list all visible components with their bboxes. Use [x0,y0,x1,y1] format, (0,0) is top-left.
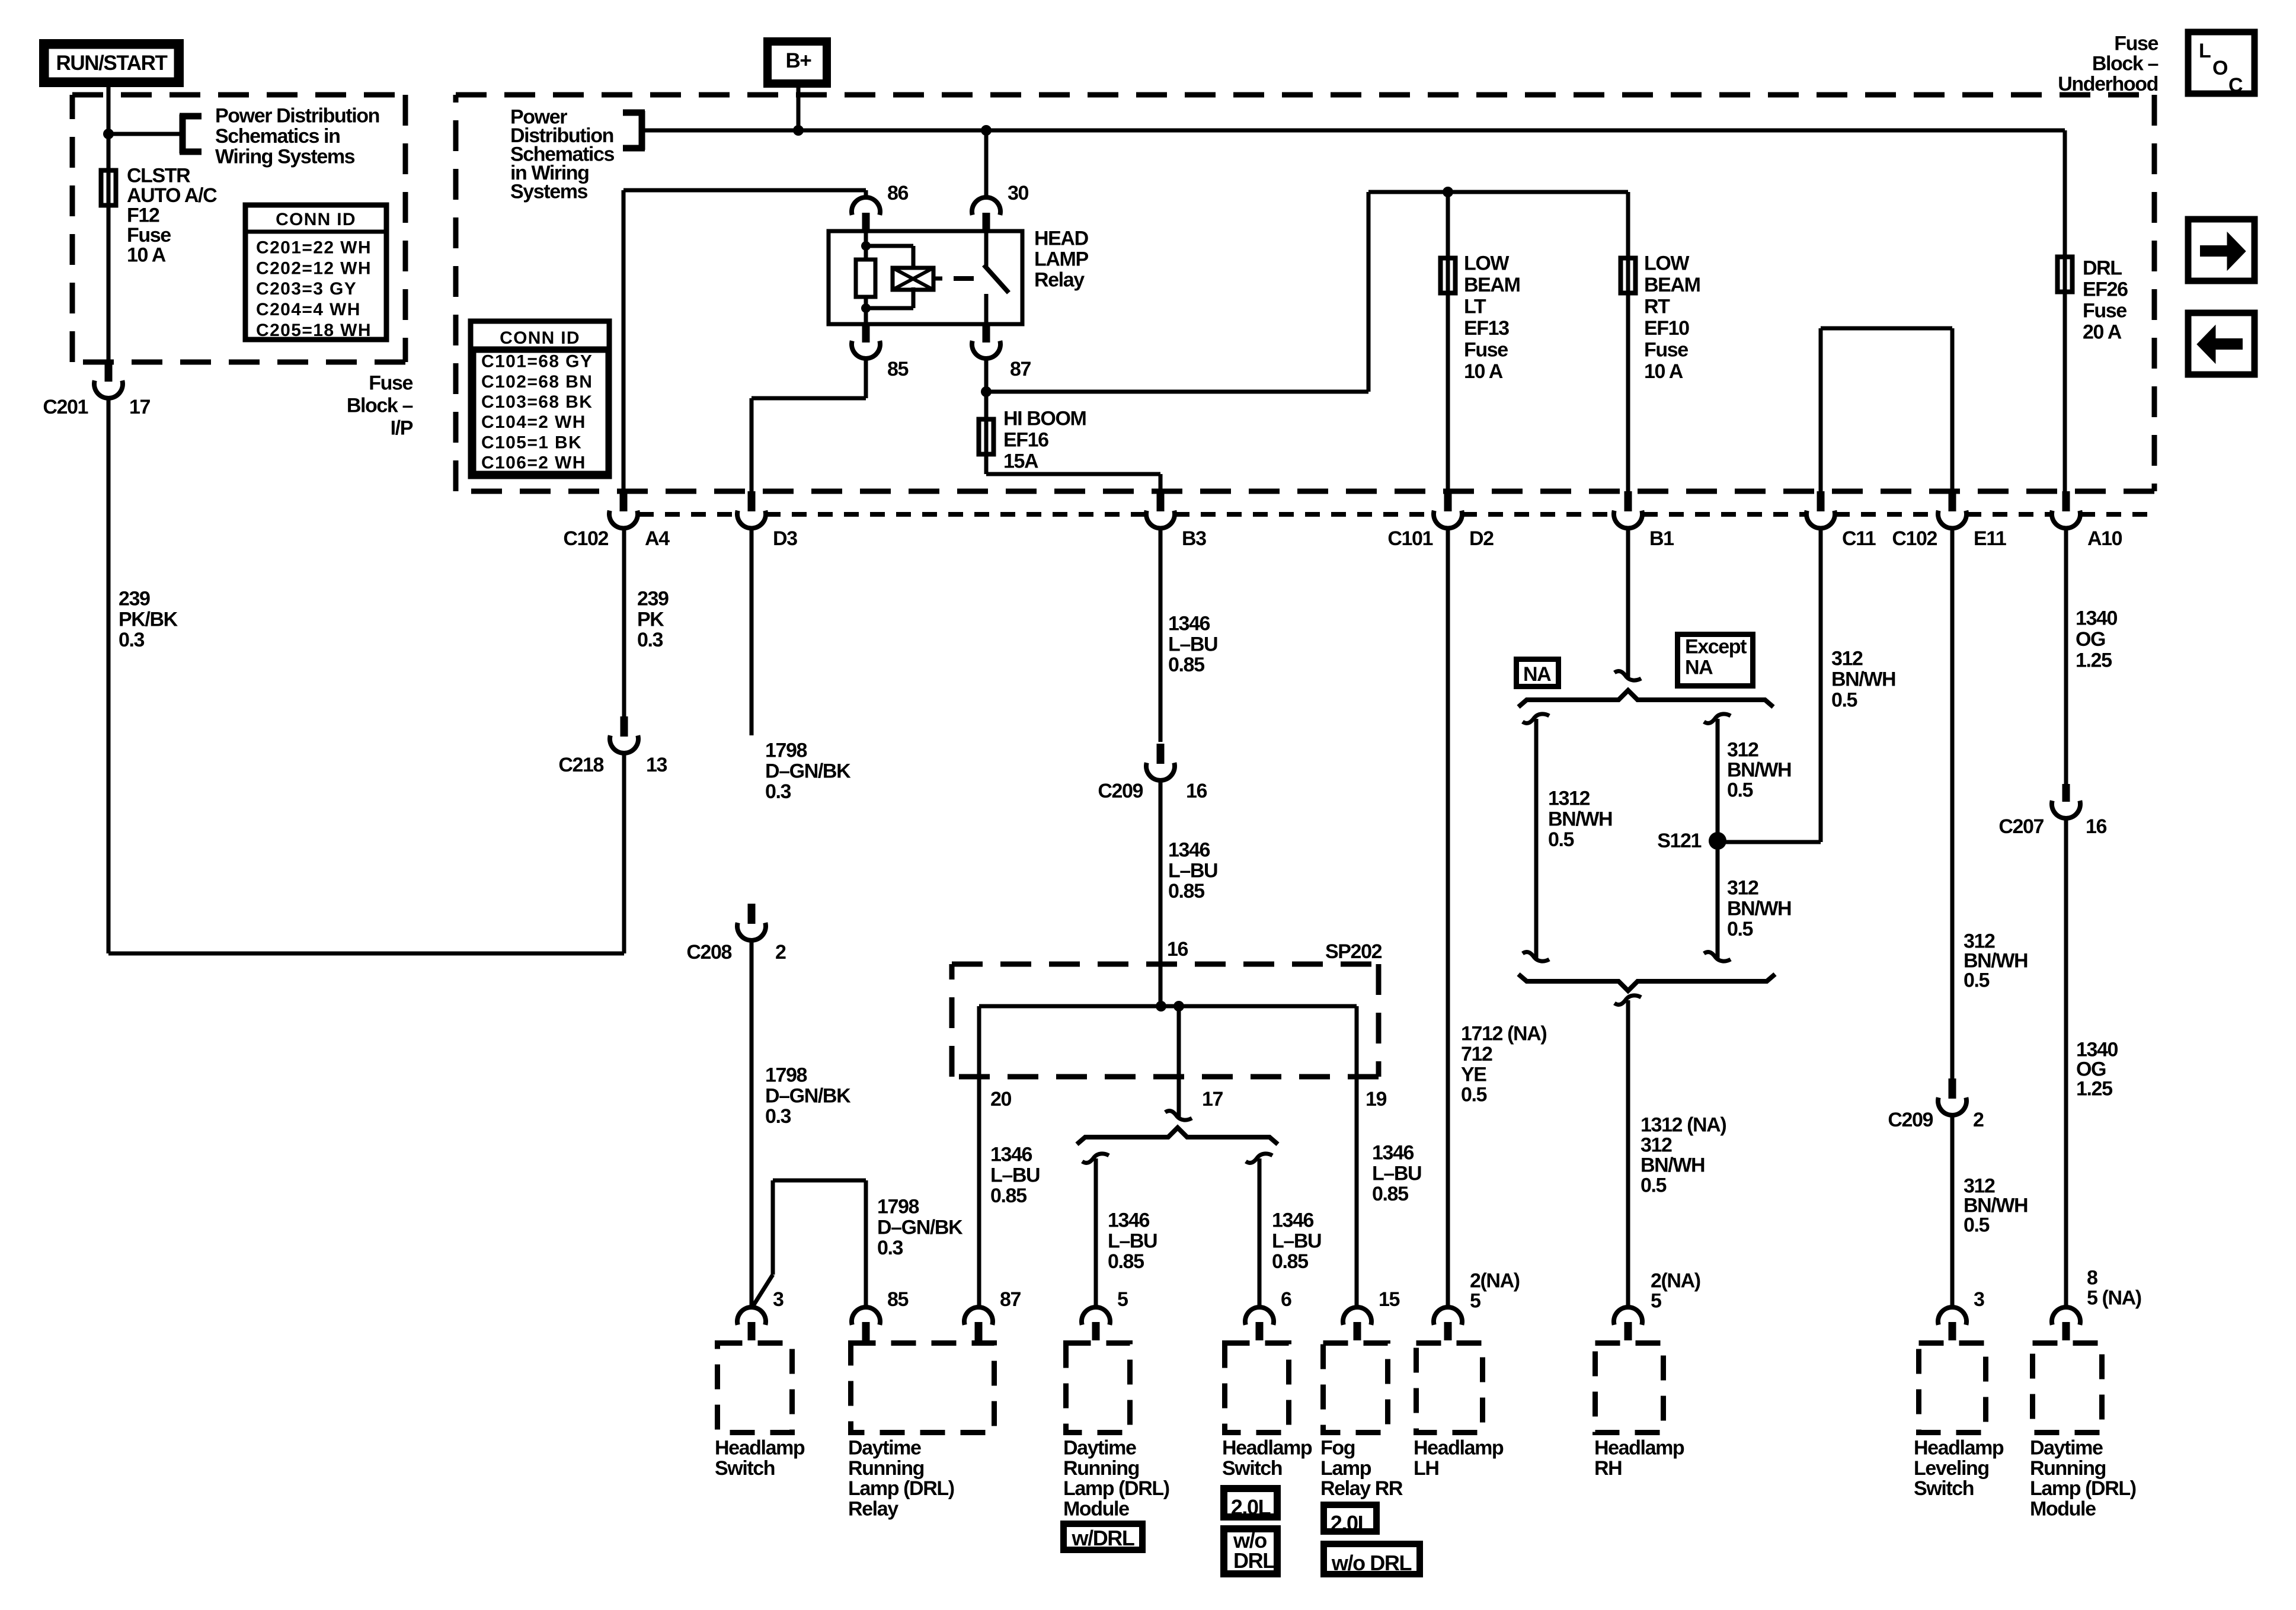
junction dot low beam split [1443,187,1453,197]
svg-text:1.25: 1.25 [2076,1078,2112,1100]
svg-text:BN/WH: BN/WH [1831,668,1895,691]
svg-text:Fog: Fog [1320,1437,1355,1459]
wire A10 to C207 [2064,528,2068,784]
svg-text:Relay: Relay [1034,269,1085,292]
label SP202 [1325,940,1382,963]
label LOW BEAM LT EF13 Fuse 10 A [1464,252,1520,383]
wire RUN/START to C201 [107,87,111,364]
svg-text:0.5: 0.5 [1641,1174,1667,1197]
svg-text:86: 86 [887,182,909,204]
svg-text:0.85: 0.85 [990,1185,1027,1207]
svg-text:16: 16 [1167,938,1188,961]
svg-text:B3: B3 [1182,527,1206,550]
splice S121 [1657,830,1726,852]
svg-text:1312: 1312 [1548,788,1590,810]
svg-text:EF13: EF13 [1464,317,1509,340]
wire C207 to DRL module [2064,818,2068,1307]
svg-text:C207: C207 [1998,815,2044,838]
svg-text:Running: Running [1063,1457,1139,1480]
relay resistor [856,260,875,297]
svg-text:1798: 1798 [765,1064,807,1087]
svg-text:13: 13 [646,754,667,776]
option tag w/DRL [1064,1524,1143,1551]
svg-text:6: 6 [1281,1288,1291,1311]
svg-text:1346: 1346 [1372,1142,1414,1164]
svg-text:0.3: 0.3 [765,1105,791,1128]
dotted connector row line [639,512,2154,517]
wire merge to headlamp RH [1614,996,1641,1307]
component box Headlamp LH [1414,1343,1504,1480]
svg-text:Fuse: Fuse [2083,300,2126,322]
connector headlamp switch pin 3 [737,1288,784,1340]
connector pin D3 [737,491,797,550]
fuse LOW BEAM RT EF10 [1621,258,1636,293]
LOC reference box [2188,32,2255,97]
connector C102 pin A4 [563,491,670,550]
svg-text:C101=68 GY: C101=68 GY [481,352,593,372]
wire C209 to SP202 [1159,779,1163,1006]
svg-text:17: 17 [129,396,151,418]
junction dot SP202 in [1156,1001,1166,1012]
label 8 / 5 (NA) (DRL module pin) [2087,1267,2141,1310]
relay coil (X box) [893,268,942,290]
svg-text:1798: 1798 [765,740,807,762]
svg-text:0.5: 0.5 [1727,918,1753,940]
connector C209 pin 16 [1098,744,1207,802]
label 19 [1366,1088,1387,1110]
svg-text:Running: Running [2030,1457,2106,1480]
svg-text:15A: 15A [1003,450,1038,473]
svg-text:Fuse: Fuse [1464,339,1508,361]
svg-text:AUTO A/C: AUTO A/C [127,184,217,207]
svg-text:BN/WH: BN/WH [1727,897,1791,920]
svg-text:C201=22 WH: C201=22 WH [256,238,372,258]
label 312 BN/WH 0.5 (C11) [1831,648,1895,712]
wire C11 to S121 [1718,528,1821,842]
svg-text:A10: A10 [2087,527,2122,550]
svg-text:BN/WH: BN/WH [1548,808,1612,830]
svg-text:RH: RH [1594,1457,1622,1480]
wire jumper C11 to E11 [1821,328,1952,491]
svg-text:312: 312 [1727,877,1758,900]
component box Fog Lamp Relay RR [1320,1343,1403,1500]
wire C209 to leveling switch pin 3 [1950,1115,1955,1307]
svg-text:Daytime: Daytime [848,1437,921,1459]
label LOW BEAM RT EF10 Fuse 10 A [1644,252,1700,383]
svg-text:Fuse: Fuse [2114,33,2158,55]
svg-text:0.5: 0.5 [1831,689,1857,712]
connector relay pin 86 [852,182,909,231]
connector fog lamp relay pin 15 [1343,1288,1400,1340]
svg-text:C218: C218 [558,754,603,776]
svg-text:CONN ID: CONN ID [500,328,580,348]
connector headlamp LH pin 5 [1434,1307,1462,1340]
svg-text:Headlamp: Headlamp [1222,1437,1312,1459]
wire B3 to C209 [1159,528,1163,742]
component box Headlamp Switch [715,1343,805,1480]
svg-text:Running: Running [848,1457,924,1480]
label 2(NA) 5 (headlamp LH pin) [1470,1270,1520,1313]
option wire Except NA (312) [1704,714,1731,961]
svg-text:1346: 1346 [1272,1209,1314,1232]
wire to relay pin 86 and down to A4 [623,190,866,491]
svg-text:Switch: Switch [1914,1477,1974,1500]
svg-text:0.3: 0.3 [119,629,145,651]
connector pin B3 [1146,491,1206,550]
power source box B+ [768,41,827,84]
svg-text:312: 312 [1727,739,1758,761]
svg-text:5: 5 [1651,1290,1661,1313]
junction dot pin 30 drop [981,125,992,136]
label 1346 L-BU 0.85 (above C209) [1168,613,1217,677]
svg-text:0.85: 0.85 [1108,1250,1144,1273]
connector C208 pin 2 [686,904,786,964]
svg-text:C203=3 GY: C203=3 GY [256,279,357,299]
option tag 2.0L (headlamp switch) [1224,1489,1277,1519]
wire E11 to C209 [1950,528,1955,1078]
svg-text:Switch: Switch [715,1457,775,1480]
svg-text:C209: C209 [1098,780,1143,802]
label 312 BN/WH 0.5 (below S121) [1727,877,1791,941]
svg-text:Headlamp: Headlamp [1414,1437,1504,1459]
connector C102 pin E11 [1892,491,2006,550]
connector C101 pin D2 [1387,491,1494,550]
svg-text:10 A: 10 A [127,244,166,267]
svg-text:5: 5 [1117,1288,1128,1311]
label 16 at SP202 [1167,938,1188,961]
merge brace NA/Except NA [1518,974,1775,991]
power source box RUN/START [43,43,180,83]
label 239 PK/BK 0.3 [119,588,178,652]
connector relay pin 85 [852,324,909,380]
svg-text:8: 8 [2087,1267,2097,1289]
svg-text:L–BU: L–BU [990,1164,1040,1186]
svg-text:Systems: Systems [510,181,588,203]
svg-text:D–GN/BK: D–GN/BK [877,1216,963,1238]
svg-text:Fuse: Fuse [1644,339,1688,361]
svg-text:17: 17 [1202,1088,1223,1110]
label 2(NA) 5 (headlamp RH pin) [1651,1270,1700,1313]
svg-text:Underhood: Underhood [2058,73,2158,95]
connector DRL module pin 5 [1082,1288,1128,1340]
connector relay pin 87 [972,324,1031,380]
svg-text:0.85: 0.85 [1168,654,1204,676]
svg-text:Daytime: Daytime [1063,1437,1136,1459]
svg-text:C202=12 WH: C202=12 WH [256,258,372,278]
svg-text:D3: D3 [773,527,797,550]
svg-text:LAMP: LAMP [1034,248,1088,271]
wire C208 to headlamp switch pin 3 [750,940,754,1307]
junction dot 87/HI BOOM [981,386,992,397]
fuse F12 CLSTR AUTO A/C 10 A [101,171,116,206]
svg-text:20 A: 20 A [2083,321,2122,344]
svg-text:Fuse: Fuse [127,224,171,247]
options brace below 17 [1077,1128,1278,1144]
label 1312 (NA) 312 BN/WH 0.5 [1641,1114,1726,1197]
label 1346 L-BU 0.85 (pin 19 drop) [1372,1142,1421,1206]
wire B+ bus [642,129,2065,133]
option wire to headlamp switch pin 6 [1246,1154,1272,1307]
svg-text:15: 15 [1379,1288,1400,1311]
svg-text:BEAM: BEAM [1464,274,1520,296]
svg-text:3: 3 [773,1288,784,1311]
svg-text:0.3: 0.3 [877,1237,903,1259]
option box NA [1517,660,1559,687]
svg-text:C102: C102 [1892,527,1937,550]
svg-text:Lamp: Lamp [1320,1457,1371,1480]
option wire NA (1312) [1523,714,1549,961]
svg-text:PK: PK [637,608,664,630]
label 1340 OG 1.25 (lower) [2076,1039,2118,1100]
svg-text:2.0L: 2.0L [1231,1495,1271,1519]
svg-text:LH: LH [1414,1457,1439,1480]
svg-text:Switch: Switch [1222,1457,1282,1480]
svg-text:C205=18 WH: C205=18 WH [256,321,372,340]
svg-text:w/DRL: w/DRL [1072,1526,1134,1550]
component box Daytime Running Lamp (DRL) Relay [848,1343,994,1521]
wire B1 to options brace [1614,528,1641,680]
svg-text:C: C [2228,74,2243,97]
label 1346 L-BU 0.85 (below C209) [1168,839,1217,903]
wire B+ to bus [797,88,801,130]
svg-text:LOW: LOW [1464,252,1510,275]
continuation bracket (Power Distribution) [180,114,202,153]
connector pin A10 [2052,491,2122,550]
svg-text:85: 85 [887,1288,909,1311]
wire bus to relay pin 30 [984,130,989,199]
svg-text:C204=4 WH: C204=4 WH [256,300,361,319]
svg-text:3: 3 [1974,1288,1984,1311]
svg-text:16: 16 [2086,815,2107,838]
svg-text:0.85: 0.85 [1272,1250,1308,1273]
svg-text:2.0L: 2.0L [1331,1511,1370,1535]
wire relay 85 to D3 [752,358,866,491]
svg-text:0.5: 0.5 [1964,969,1990,992]
svg-text:L–BU: L–BU [1272,1230,1321,1252]
svg-text:C105=1 BK: C105=1 BK [481,433,582,452]
svg-text:Except: Except [1685,636,1747,658]
svg-text:Relay: Relay [848,1497,898,1520]
svg-text:20: 20 [990,1088,1012,1110]
svg-text:D2: D2 [1469,527,1494,550]
svg-text:B1: B1 [1649,527,1674,550]
junction dot SP202 17 [1173,1001,1184,1012]
wire branch to DRL relay pin 85 [752,1180,866,1308]
relay switch contact [984,231,1009,324]
svg-text:C101: C101 [1387,527,1432,550]
svg-text:712: 712 [1461,1043,1492,1065]
svg-text:Block –: Block – [2092,53,2159,75]
svg-text:2: 2 [1973,1109,1984,1131]
svg-text:LT: LT [1464,296,1486,318]
connector leveling switch pin 3 [1938,1288,1984,1340]
connector C207 pin 16 [1998,784,2106,838]
label 1346 L-BU 0.85 (pin 5) [1108,1209,1157,1273]
options brace NA/Except NA [1518,690,1773,707]
svg-text:A4: A4 [645,527,670,550]
svg-text:C208: C208 [686,941,731,964]
svg-text:O: O [2212,57,2228,79]
svg-text:Fuse: Fuse [369,372,412,395]
svg-text:RT: RT [1644,296,1670,318]
svg-text:EF26: EF26 [2083,279,2128,301]
svg-text:I/P: I/P [391,417,413,440]
svg-text:CONN ID: CONN ID [276,210,356,229]
wire D2 to headlamp LH [1446,528,1450,1307]
svg-text:Leveling: Leveling [1914,1457,1989,1480]
svg-text:L–BU: L–BU [1108,1230,1157,1252]
component box Daytime Running Lamp (DRL) Module [1063,1343,1169,1521]
svg-text:1340: 1340 [2076,607,2118,630]
continuation bracket (underhood) [623,111,645,150]
svg-text:B+: B+ [786,49,812,72]
svg-text:L–BU: L–BU [1372,1162,1421,1185]
label 1798 D-GN/BK 0.3 (branch) [877,1196,963,1260]
svg-text:2(NA): 2(NA) [1470,1270,1520,1292]
option box Except NA [1678,635,1753,686]
relay coil feed wires [861,231,913,324]
label 312 BN/WH 0.5 (E11 lower) [1964,1175,2028,1237]
svg-text:YE: YE [1461,1063,1486,1086]
svg-text:HI BOOM: HI BOOM [1003,408,1086,430]
CONN ID table (I/P) [243,205,389,340]
connector headlamp RH pin 5 [1614,1307,1642,1340]
svg-text:L: L [2199,40,2211,62]
svg-text:0.85: 0.85 [1168,880,1204,902]
svg-text:Headlamp: Headlamp [1594,1437,1684,1459]
svg-text:0.3: 0.3 [765,780,791,803]
splice pack SP202 dashed box [952,964,1379,1077]
label 1312 BN/WH 0.5 [1548,788,1612,852]
svg-text:16: 16 [1186,780,1207,802]
connector pin B1 [1614,491,1674,550]
svg-text:D–GN/BK: D–GN/BK [765,760,851,782]
svg-text:C209: C209 [1888,1109,1933,1131]
component box Headlamp Switch (2) [1222,1343,1312,1480]
svg-text:Lamp (DRL): Lamp (DRL) [1063,1477,1169,1500]
svg-text:C104=2 WH: C104=2 WH [481,412,586,432]
svg-text:LOW: LOW [1644,252,1690,275]
svg-text:C11: C11 [1842,527,1876,550]
svg-text:1346: 1346 [990,1144,1032,1166]
svg-text:Relay RR: Relay RR [1320,1477,1403,1500]
wire A4 to C218 [622,528,626,716]
svg-text:312: 312 [1831,648,1863,670]
svg-text:239: 239 [637,588,669,610]
connector C218 pin 13 [558,716,667,776]
svg-text:0.5: 0.5 [1964,1214,1990,1237]
svg-text:NA: NA [1523,663,1551,686]
svg-text:C103=68 BK: C103=68 BK [481,392,593,412]
option wire to DRL module pin 5 [1082,1154,1109,1307]
svg-text:30: 30 [1008,182,1029,204]
svg-text:10 A: 10 A [1464,360,1503,383]
component box Daytime Running Lamp (DRL) Module (right) [2030,1343,2136,1521]
svg-text:Block –: Block – [347,395,413,417]
connector headlamp switch pin 6 [1245,1288,1291,1340]
svg-text:E11: E11 [1974,527,2006,550]
svg-text:L–BU: L–BU [1168,633,1217,655]
connector DRL module pin 5 (right) [2052,1307,2080,1340]
fuse LOW BEAM LT EF13 [1441,258,1456,293]
svg-text:C102: C102 [563,527,608,550]
label 17 [1202,1088,1223,1110]
svg-text:Module: Module [2030,1497,2096,1520]
wire bus to DRL fuse to A10 [2063,130,2067,491]
svg-text:BN/WH: BN/WH [1727,759,1791,782]
label 312 BN/WH 0.5 (E11 upper) [1964,930,2028,992]
label 312 BN/WH 0.5 (above S121) [1727,739,1791,802]
hook wire 17 end [1165,1111,1192,1121]
svg-text:5 (NA): 5 (NA) [2087,1287,2141,1310]
text Power Distribution Schematics in Wiring Systems (I/P) [215,105,379,168]
svg-text:0.5: 0.5 [1727,779,1753,802]
fuse DRL EF26 20 A [2058,257,2073,292]
junction dot [103,129,114,139]
svg-text:0.5: 0.5 [1548,828,1574,851]
svg-text:Wiring Systems: Wiring Systems [215,146,355,168]
svg-text:BEAM: BEAM [1644,274,1700,296]
wire D3 to C208 [750,528,754,735]
svg-text:L–BU: L–BU [1168,859,1217,882]
svg-text:Headlamp: Headlamp [1914,1437,2004,1459]
svg-text:1346: 1346 [1108,1209,1150,1232]
svg-text:CLSTR: CLSTR [127,165,190,187]
svg-text:OG: OG [2076,628,2105,651]
svg-text:PK/BK: PK/BK [119,608,178,630]
svg-text:85: 85 [887,358,909,380]
label DRL EF26 Fuse 20 A [2083,257,2128,344]
option tag w/o DRL (fog lamp relay) [1324,1544,1420,1576]
svg-text:1346: 1346 [1168,839,1210,862]
svg-text:RUN/START: RUN/START [56,52,167,75]
component box Headlamp RH [1594,1343,1684,1480]
text HEAD LAMP Relay [1034,228,1089,292]
option tag w/o DRL (headlamp switch) [1224,1528,1277,1574]
label 239 PK 0.3 [637,588,669,652]
svg-text:239: 239 [119,588,150,610]
svg-text:SP202: SP202 [1325,940,1382,963]
svg-text:19: 19 [1366,1088,1387,1110]
svg-text:0.3: 0.3 [637,629,663,651]
label 1346 L-BU 0.85 (pin 20 drop) [990,1144,1040,1208]
svg-text:DRL: DRL [1233,1548,1275,1573]
label 1346 L-BU 0.85 (pin 6) [1272,1209,1321,1273]
svg-text:HEAD: HEAD [1034,228,1089,250]
junction dot B+ drop [793,125,804,136]
svg-text:w/o DRL: w/o DRL [1331,1551,1412,1575]
connector C201 pin 17 [43,364,150,418]
relay box HEAD LAMP Relay [829,231,1022,324]
svg-text:EF10: EF10 [1644,317,1689,340]
svg-text:D–GN/BK: D–GN/BK [765,1084,851,1107]
wire 239 PK/BK from C201 [108,398,624,953]
CONN ID table (underhood) [468,321,612,476]
svg-text:Module: Module [1063,1497,1129,1520]
connector relay pin 30 [972,182,1029,231]
svg-text:87: 87 [1000,1288,1021,1311]
svg-text:Lamp (DRL): Lamp (DRL) [2030,1477,2136,1500]
svg-text:Power Distribution: Power Distribution [215,105,379,127]
wire relay 87 feed [986,192,1628,491]
svg-text:1712 (NA): 1712 (NA) [1461,1023,1546,1045]
svg-text:2(NA): 2(NA) [1651,1270,1700,1292]
svg-text:DRL: DRL [2083,257,2122,280]
svg-text:EF16: EF16 [1003,429,1048,452]
connector DRL relay pin 85 [852,1288,909,1340]
label 20 [990,1088,1012,1110]
fuse HI BOOM EF16 15A [979,392,1161,491]
